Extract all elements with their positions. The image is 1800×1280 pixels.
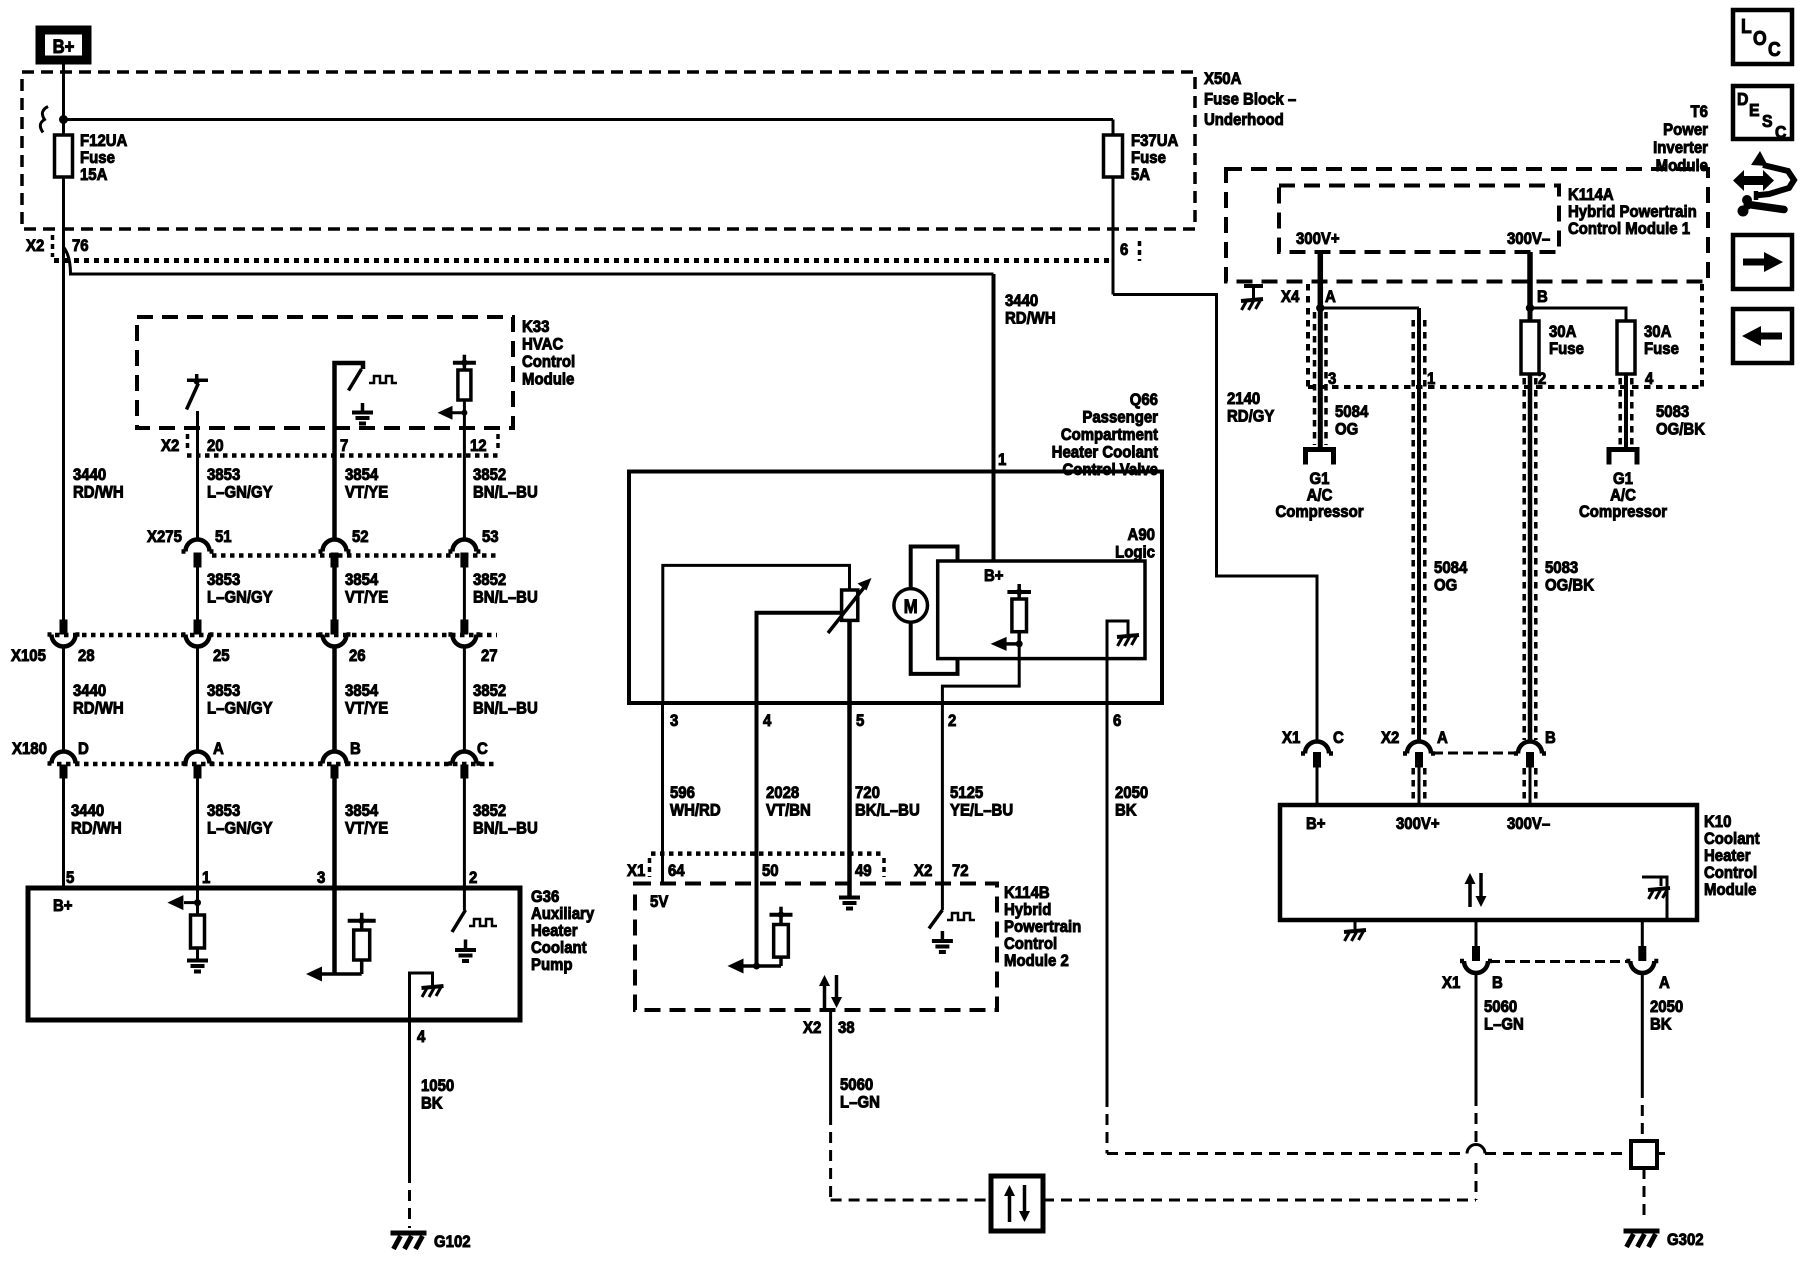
connector row X2 (dotted) xyxy=(187,453,499,458)
svg-text:5060: 5060 xyxy=(840,1076,873,1094)
svg-text:Coolant: Coolant xyxy=(531,939,587,957)
svg-text:Logic: Logic xyxy=(1115,544,1155,562)
wire branch: X2-76 to Q66 pin 1 xyxy=(64,247,994,274)
svg-text:OG/BK: OG/BK xyxy=(1545,577,1594,595)
svg-text:Heater Coolant: Heater Coolant xyxy=(1052,444,1159,462)
back arrow icon box xyxy=(1733,309,1792,363)
svg-text:C: C xyxy=(1768,38,1781,60)
T6 chassis ground xyxy=(1244,284,1263,288)
inline connector at 1530 xyxy=(1514,742,1546,754)
svg-text:26: 26 xyxy=(349,647,366,665)
svg-text:G1: G1 xyxy=(1613,470,1633,488)
LOC icon box xyxy=(1733,10,1792,64)
svg-text:L–GN/GY: L–GN/GY xyxy=(207,820,273,838)
svg-text:A: A xyxy=(1325,288,1336,306)
tools / data icon xyxy=(1733,170,1774,191)
svg-text:B: B xyxy=(1545,729,1556,747)
inline connector at 1642.3 xyxy=(1638,946,1646,961)
svg-text:VT/YE: VT/YE xyxy=(345,700,389,718)
svg-text:1: 1 xyxy=(1427,370,1435,388)
svg-text:50: 50 xyxy=(762,862,779,880)
svg-text:5: 5 xyxy=(856,712,864,730)
X180 inline connector at 464.4 xyxy=(448,752,480,764)
K114B pin 50 input with pull-up xyxy=(755,884,759,967)
svg-text:Auxiliary: Auxiliary xyxy=(531,905,594,923)
connector X105 row xyxy=(55,633,497,638)
svg-text:3854: 3854 xyxy=(345,682,378,700)
connector X275 row xyxy=(212,553,499,558)
svg-text:L–GN/GY: L–GN/GY xyxy=(207,700,273,718)
svg-text:Fuse: Fuse xyxy=(1644,340,1679,358)
dashed 2050 BK run to G302, hop over 5060 xyxy=(1107,1152,1467,1155)
svg-text:F37UA: F37UA xyxy=(1131,132,1179,150)
K114A Hybrid Powertrain Control Module 1 dashed box xyxy=(1279,186,1559,253)
svg-text:BK/L–BU: BK/L–BU xyxy=(855,802,920,820)
A90 internal resistor + driver arrow xyxy=(1007,590,1031,594)
svg-text:3854: 3854 xyxy=(345,802,378,820)
G1 A/C Compressor terminal (left) xyxy=(1303,447,1336,452)
fuse F12UA 15A xyxy=(55,135,73,177)
svg-text:5084: 5084 xyxy=(1335,403,1368,421)
svg-text:RD/WH: RD/WH xyxy=(1005,310,1056,328)
svg-text:Inverter: Inverter xyxy=(1653,139,1708,157)
svg-text:G1: G1 xyxy=(1310,470,1330,488)
svg-text:64: 64 xyxy=(668,862,685,880)
svg-text:25: 25 xyxy=(213,647,230,665)
wire 720 Q66-5 to K114B-49 xyxy=(847,703,852,884)
svg-text:X2: X2 xyxy=(803,1019,821,1037)
svg-text:Compressor: Compressor xyxy=(1579,503,1667,521)
svg-text:1: 1 xyxy=(202,869,210,887)
svg-text:HVAC: HVAC xyxy=(522,336,564,354)
svg-text:X1: X1 xyxy=(1282,729,1300,747)
300V- wire from K114A xyxy=(1527,252,1533,308)
svg-text:X105: X105 xyxy=(11,647,46,665)
svg-text:K114A: K114A xyxy=(1568,186,1614,204)
svg-text:Module: Module xyxy=(1704,881,1756,899)
svg-text:D: D xyxy=(78,740,89,758)
svg-text:6: 6 xyxy=(1113,712,1121,730)
svg-text:3852: 3852 xyxy=(473,571,506,589)
wire 5060 L-GN down to data link xyxy=(1475,974,1478,1096)
serial data link box xyxy=(991,1176,1043,1231)
svg-text:12: 12 xyxy=(470,437,487,455)
svg-text:K114B: K114B xyxy=(1004,884,1050,902)
svg-text:K10: K10 xyxy=(1704,813,1732,831)
Q66 pin 4 wire to potentiometer wiper xyxy=(757,613,842,703)
K10 serial data symbol xyxy=(1468,883,1472,907)
svg-text:Fuse: Fuse xyxy=(1549,340,1584,358)
svg-text:38: 38 xyxy=(838,1019,855,1037)
svg-text:Fuse: Fuse xyxy=(80,149,115,167)
wire 3852 X105 to X180 xyxy=(463,647,466,752)
svg-text:Module: Module xyxy=(522,371,574,389)
svg-text:Control Module 1: Control Module 1 xyxy=(1568,220,1690,238)
X105 inline connector at 464.4 xyxy=(460,620,468,635)
svg-text:A90: A90 xyxy=(1128,526,1156,544)
wire 596 Q66-3 to K114B-64 xyxy=(661,703,664,884)
K114B Hybrid Powertrain Control Module 2 dashed box xyxy=(635,884,997,1011)
svg-text:Hybrid: Hybrid xyxy=(1004,901,1051,919)
svg-text:3853: 3853 xyxy=(207,466,240,484)
svg-text:300V–: 300V– xyxy=(1507,230,1550,248)
svg-text:VT/YE: VT/YE xyxy=(345,820,389,838)
svg-text:3852: 3852 xyxy=(473,466,506,484)
A90 Logic box xyxy=(938,561,1145,659)
wire 3853 K33-20 to X275-51 xyxy=(196,428,199,540)
svg-text:3852: 3852 xyxy=(473,802,506,820)
svg-text:3853: 3853 xyxy=(207,802,240,820)
svg-text:Compartment: Compartment xyxy=(1061,426,1159,444)
K33 HVAC Control Module dashed box xyxy=(137,317,513,428)
svg-text:Heater: Heater xyxy=(1704,847,1751,865)
svg-text:L–GN: L–GN xyxy=(1484,1016,1524,1034)
wire: 2050 BK from Q66 pin 6 down xyxy=(1106,703,1109,1096)
svg-text:30A: 30A xyxy=(1549,323,1577,341)
svg-text:A/C: A/C xyxy=(1307,487,1333,505)
G36 pin 2 switch to ground xyxy=(463,888,466,910)
svg-text:300V+: 300V+ xyxy=(1296,230,1340,248)
svg-text:Powertrain: Powertrain xyxy=(1004,918,1081,936)
svg-text:Coolant: Coolant xyxy=(1704,830,1760,848)
wire 2028 Q66-4 to K114B-50 xyxy=(755,703,759,884)
svg-text:53: 53 xyxy=(482,528,499,546)
svg-text:Passenger: Passenger xyxy=(1082,409,1158,427)
wire 5125 Q66-2 to K114B-72 xyxy=(941,703,944,884)
svg-text:Module: Module xyxy=(1656,157,1708,175)
svg-text:X1: X1 xyxy=(1442,974,1460,992)
svg-text:Control Valve: Control Valve xyxy=(1062,461,1158,479)
svg-text:X180: X180 xyxy=(12,740,47,758)
X275 inline connector at 464.4 xyxy=(448,540,480,552)
svg-text:5083: 5083 xyxy=(1545,559,1578,577)
svg-text:X1: X1 xyxy=(627,862,645,880)
G36 internal chassis ground pin 4 xyxy=(410,973,433,1020)
svg-text:F12UA: F12UA xyxy=(80,132,128,150)
thick wire pot to pin 5 xyxy=(847,620,852,703)
svg-text:L: L xyxy=(1741,15,1752,37)
wire 3854 X275 to X105 xyxy=(332,568,337,621)
svg-text:RD/WH: RD/WH xyxy=(73,484,124,502)
svg-text:BN/L–BU: BN/L–BU xyxy=(473,484,538,502)
svg-text:2: 2 xyxy=(469,869,477,887)
svg-text:WH/RD: WH/RD xyxy=(670,802,721,820)
svg-text:K33: K33 xyxy=(522,318,550,336)
svg-text:B+: B+ xyxy=(1306,815,1326,833)
svg-text:L–GN/GY: L–GN/GY xyxy=(207,484,273,502)
svg-text:X2: X2 xyxy=(914,862,932,880)
splice block xyxy=(1631,1141,1657,1168)
branch wire to second 30A fuse xyxy=(1530,308,1626,321)
T6 Power Inverter Module dashed box xyxy=(1226,169,1708,282)
svg-text:Fuse Block –: Fuse Block – xyxy=(1204,91,1296,109)
wire: 1050 BK to G102 xyxy=(408,1020,411,1172)
svg-text:B: B xyxy=(1492,974,1503,992)
svg-text:OG: OG xyxy=(1434,577,1457,595)
svg-text:3: 3 xyxy=(317,869,325,887)
svg-text:4: 4 xyxy=(1645,370,1653,388)
svg-text:VT/BN: VT/BN xyxy=(766,802,811,820)
wire 3852 X180 to G36 pin 2 xyxy=(463,778,466,888)
svg-text:3440: 3440 xyxy=(73,682,106,700)
svg-text:B+: B+ xyxy=(984,567,1004,585)
svg-text:A/C: A/C xyxy=(1610,487,1636,505)
svg-text:BK: BK xyxy=(421,1095,443,1113)
svg-text:BN/L–BU: BN/L–BU xyxy=(473,589,538,607)
HV cable flank dots xyxy=(1315,312,1327,445)
svg-text:2: 2 xyxy=(1538,370,1546,388)
G1 A/C Compressor terminal (right) xyxy=(1607,447,1640,452)
svg-text:RD/WH: RD/WH xyxy=(73,700,124,718)
svg-text:L–GN: L–GN xyxy=(840,1094,880,1112)
X105 inline connector at 63.5 xyxy=(60,620,68,635)
Q66 pin 3 wire to potentiometer xyxy=(663,565,850,703)
A90 internal chassis ground (pin 6 node) xyxy=(1107,621,1128,659)
svg-text:OG/BK: OG/BK xyxy=(1656,421,1705,439)
svg-text:G102: G102 xyxy=(434,1233,471,1251)
svg-text:3: 3 xyxy=(1328,370,1336,388)
svg-text:2140: 2140 xyxy=(1227,390,1260,408)
svg-text:E: E xyxy=(1749,100,1760,120)
svg-text:72: 72 xyxy=(952,862,969,880)
motor M symbol xyxy=(894,589,928,623)
DESC icon box xyxy=(1733,86,1792,139)
svg-text:5: 5 xyxy=(66,869,74,887)
svg-text:Fuse: Fuse xyxy=(1131,149,1166,167)
B+ battery symbol xyxy=(36,26,91,64)
forward arrow icon box xyxy=(1733,235,1792,289)
X105 inline connector at 334.5 xyxy=(331,620,339,635)
300V+ wire from K114A xyxy=(1318,252,1324,308)
K114B pin 49 ground xyxy=(847,884,852,897)
svg-text:X50A: X50A xyxy=(1204,70,1242,88)
wire 3440 X105 to X180 xyxy=(62,647,65,752)
inline connector at 1317 xyxy=(1301,742,1333,754)
svg-text:15A: 15A xyxy=(80,166,108,184)
X105 inline connector at 197.5 xyxy=(194,620,202,635)
K33 resistor output pin 12 xyxy=(453,361,476,365)
wire 3852 K33-12 to X275-53 xyxy=(463,428,466,540)
svg-text:VT/YE: VT/YE xyxy=(345,484,389,502)
svg-text:2: 2 xyxy=(948,712,956,730)
svg-text:4: 4 xyxy=(417,1028,425,1046)
fuse block dotted box xyxy=(1308,284,1702,387)
svg-text:S: S xyxy=(1762,111,1773,131)
svg-text:2050: 2050 xyxy=(1115,784,1148,802)
svg-text:6: 6 xyxy=(1120,241,1128,259)
svg-text:27: 27 xyxy=(481,647,498,665)
svg-text:YE/L–BU: YE/L–BU xyxy=(950,802,1013,820)
junction node xyxy=(59,115,68,124)
svg-text:5060: 5060 xyxy=(1484,998,1517,1016)
svg-text:BN/L–BU: BN/L–BU xyxy=(473,700,538,718)
svg-text:49: 49 xyxy=(855,862,872,880)
svg-text:3853: 3853 xyxy=(207,571,240,589)
svg-text:A: A xyxy=(1659,974,1670,992)
svg-text:7: 7 xyxy=(340,437,348,455)
X180 inline connector at 334.5 xyxy=(319,752,351,764)
G36 pin 1 motor winding to ground xyxy=(196,888,199,915)
inline connector at 1419 xyxy=(1403,742,1435,754)
svg-text:B: B xyxy=(1537,288,1548,306)
30A fuse (branch) xyxy=(1617,321,1635,374)
wire 3854 K33-7 to X275-52 xyxy=(332,428,337,540)
svg-text:Control: Control xyxy=(1704,864,1757,882)
motor bracket to A90 xyxy=(911,547,958,589)
svg-text:5A: 5A xyxy=(1131,166,1151,184)
svg-text:O: O xyxy=(1753,27,1767,49)
svg-text:D: D xyxy=(1737,89,1748,109)
svg-text:Heater: Heater xyxy=(531,922,578,940)
X275 inline connector at 197.5 xyxy=(182,540,214,552)
svg-text:C: C xyxy=(477,740,488,758)
K33 low-side driver pin 7 xyxy=(335,363,364,428)
svg-text:RD/GY: RD/GY xyxy=(1227,408,1275,426)
wire 3853 X275 to X105 xyxy=(196,568,199,621)
wire 2050 BK down to splice xyxy=(1641,974,1644,1088)
wire: F37UA down through pin 6 xyxy=(1112,177,1115,295)
svg-text:C: C xyxy=(1333,729,1344,747)
wire 3440 X180 to G36 pin 5 xyxy=(62,778,65,888)
svg-text:28: 28 xyxy=(78,647,95,665)
wire: feed to F37UA xyxy=(64,118,1114,121)
svg-text:Control: Control xyxy=(1004,935,1057,953)
wire 3854 X105 to X180 xyxy=(332,647,337,752)
svg-text:720: 720 xyxy=(855,784,880,802)
svg-text:5V: 5V xyxy=(650,893,669,911)
G36 Auxiliary Heater Coolant Pump box xyxy=(28,888,520,1020)
K10 internal chassis ground xyxy=(1642,877,1667,920)
svg-text:BK: BK xyxy=(1115,802,1137,820)
svg-text:Underhood: Underhood xyxy=(1204,111,1284,129)
connector row X2 / 76 / 6 (dotted) xyxy=(54,258,1113,263)
svg-text:596: 596 xyxy=(670,784,695,802)
X50A Fuse Block - Underhood dashed box xyxy=(22,72,1195,229)
svg-text:3: 3 xyxy=(670,712,678,730)
wire: 2140 RD/GY F37UA to K10 B+ xyxy=(1113,295,1317,742)
svg-text:1050: 1050 xyxy=(421,1077,454,1095)
X275 inline connector at 334.5 xyxy=(319,540,351,552)
wire A90 driver out to pin 2 xyxy=(942,644,1019,703)
svg-text:Compressor: Compressor xyxy=(1275,503,1363,521)
svg-text:B: B xyxy=(350,740,361,758)
svg-text:3440: 3440 xyxy=(73,466,106,484)
wire 3853 X105 to X180 xyxy=(196,647,199,752)
svg-text:300V+: 300V+ xyxy=(1396,815,1440,833)
svg-text:M: M xyxy=(904,596,918,617)
svg-text:VT/YE: VT/YE xyxy=(345,589,389,607)
wire: 3440 RD/WH down to Q66 xyxy=(992,274,996,561)
branch wire to pin 1 xyxy=(1320,307,1419,310)
svg-text:X4: X4 xyxy=(1281,288,1299,306)
svg-text:C: C xyxy=(1775,122,1786,142)
svg-text:5125: 5125 xyxy=(950,784,983,802)
potentiometer xyxy=(842,590,858,620)
svg-text:G36: G36 xyxy=(531,888,559,906)
Q66 Passenger Compartment Heater Coolant Control Valve box xyxy=(629,472,1162,704)
svg-text:2050: 2050 xyxy=(1650,998,1683,1016)
svg-text:L–GN/GY: L–GN/GY xyxy=(207,589,273,607)
ground G302 xyxy=(1624,1229,1660,1234)
fuse F37UA 5A xyxy=(1112,120,1115,136)
svg-text:X2: X2 xyxy=(26,237,44,255)
svg-text:G302: G302 xyxy=(1667,1231,1704,1249)
svg-text:76: 76 xyxy=(72,237,89,255)
svg-text:51: 51 xyxy=(215,528,232,546)
svg-text:Module 2: Module 2 xyxy=(1004,952,1069,970)
X180 inline connector at 63.5 xyxy=(48,752,80,764)
connector X180 row xyxy=(57,762,494,767)
svg-text:5083: 5083 xyxy=(1656,403,1689,421)
connector row X1 64/50/49 X2 72 (dotted) xyxy=(651,851,884,856)
inline connector at 1476 xyxy=(1472,946,1480,961)
svg-text:3854: 3854 xyxy=(345,571,378,589)
svg-text:3854: 3854 xyxy=(345,466,378,484)
wire: 5060 L-GN from X2-38 xyxy=(829,1010,832,1114)
svg-text:2028: 2028 xyxy=(766,784,799,802)
svg-text:BK: BK xyxy=(1650,1016,1672,1034)
svg-text:4: 4 xyxy=(763,712,771,730)
svg-text:RD/WH: RD/WH xyxy=(71,820,122,838)
X180 inline connector at 197.5 xyxy=(182,752,214,764)
wire: F12UA to X2 pin 76 xyxy=(62,177,65,620)
svg-text:5084: 5084 xyxy=(1434,559,1467,577)
K10 case ground stub xyxy=(1354,920,1357,929)
splice crimp symbol xyxy=(40,107,48,133)
svg-text:B+: B+ xyxy=(53,36,75,57)
svg-text:Power: Power xyxy=(1663,121,1708,139)
G36 pin 3 sense resistor xyxy=(332,888,337,974)
svg-text:30A: 30A xyxy=(1644,323,1672,341)
ground G102 xyxy=(391,1231,427,1236)
K114B pin 72 switch to ground xyxy=(941,884,944,911)
svg-text:20: 20 xyxy=(207,437,224,455)
svg-text:BN/L–BU: BN/L–BU xyxy=(473,820,538,838)
svg-text:OG: OG xyxy=(1335,421,1358,439)
K33 switch output pin 20 xyxy=(187,378,208,382)
wire pin6 through A90 bottom xyxy=(1106,659,1109,703)
svg-text:A: A xyxy=(213,740,224,758)
svg-text:52: 52 xyxy=(352,528,369,546)
svg-text:T6: T6 xyxy=(1691,103,1709,121)
svg-text:B+: B+ xyxy=(53,897,73,915)
svg-text:3852: 3852 xyxy=(473,682,506,700)
svg-text:Q66: Q66 xyxy=(1130,391,1158,409)
wire 3854 X180 to G36 pin 3 xyxy=(332,778,337,888)
wires K10 to X1 row xyxy=(1475,920,1478,946)
svg-text:Control: Control xyxy=(522,353,575,371)
svg-text:X2: X2 xyxy=(1381,729,1399,747)
svg-text:3440: 3440 xyxy=(1005,292,1038,310)
svg-text:X275: X275 xyxy=(147,528,182,546)
svg-text:3853: 3853 xyxy=(207,682,240,700)
svg-text:X2: X2 xyxy=(161,437,179,455)
wire 3852 X275 to X105 xyxy=(463,568,466,621)
K10 Coolant Heater Control Module box xyxy=(1280,805,1697,920)
wire: B+ down to fuse F12UA xyxy=(62,64,65,135)
30A fuse (300V-) xyxy=(1521,321,1539,374)
svg-text:1: 1 xyxy=(998,451,1006,469)
K114B serial data symbol xyxy=(823,985,827,1008)
svg-text:300V–: 300V– xyxy=(1507,815,1550,833)
svg-text:Pump: Pump xyxy=(531,956,573,974)
wire 3853 X180 to G36 pin 1 xyxy=(196,778,199,888)
svg-text:A: A xyxy=(1437,729,1448,747)
svg-text:Hybrid Powertrain: Hybrid Powertrain xyxy=(1568,203,1697,221)
svg-text:3440: 3440 xyxy=(71,802,104,820)
